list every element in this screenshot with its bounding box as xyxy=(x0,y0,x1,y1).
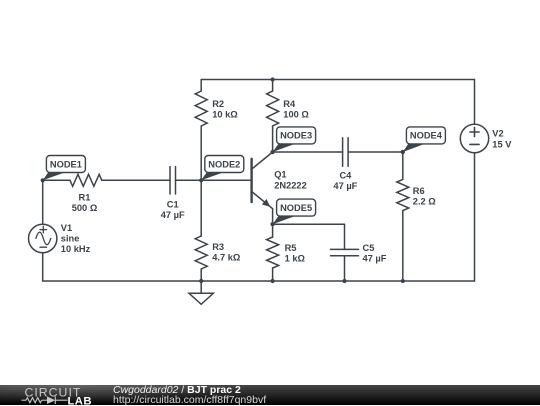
node NODE3 xyxy=(271,127,316,154)
node NODE2 xyxy=(199,156,244,183)
svg-text:47 µF: 47 µF xyxy=(161,210,185,220)
wire C4 to node4 xyxy=(348,151,403,153)
wire V2 column top xyxy=(474,80,476,125)
svg-text:1 kΩ: 1 kΩ xyxy=(285,254,306,264)
voltage source V2 xyxy=(460,124,488,152)
svg-text:NODE5: NODE5 xyxy=(280,203,312,213)
footer bar xyxy=(0,385,540,405)
node NODE4 xyxy=(401,127,446,154)
capacitor C4 xyxy=(343,138,349,167)
svg-text:V2: V2 xyxy=(492,129,503,139)
resistor R4 xyxy=(267,80,279,153)
wire collector to C4 xyxy=(273,151,343,153)
svg-text:Q1: Q1 xyxy=(274,170,286,180)
wire top rail xyxy=(201,79,474,81)
wire node1 to R1 xyxy=(43,179,70,181)
wire emitter node5 to C5 xyxy=(273,223,345,225)
svg-text:R3: R3 xyxy=(212,242,224,252)
svg-text:47 µF: 47 µF xyxy=(363,254,387,264)
wire C5 top lead xyxy=(344,224,346,249)
svg-text:R6: R6 xyxy=(413,186,425,196)
svg-text:C1: C1 xyxy=(167,200,179,210)
wire bottom rail xyxy=(43,280,475,282)
wire C1 to node2 xyxy=(176,179,202,181)
resistor R3 xyxy=(195,180,207,281)
svg-text:2N2222: 2N2222 xyxy=(274,180,307,190)
resistor R1 xyxy=(70,174,102,186)
svg-text:NODE2: NODE2 xyxy=(208,159,240,169)
svg-text:500 Ω: 500 Ω xyxy=(72,203,98,213)
resistor R2 xyxy=(195,80,207,181)
footer caption xyxy=(113,384,241,396)
svg-text:10 kHz: 10 kHz xyxy=(61,244,91,254)
svg-text:10 kΩ: 10 kΩ xyxy=(212,110,238,120)
svg-text:R1: R1 xyxy=(79,193,91,203)
capacitor C5 xyxy=(331,249,359,255)
resistor R6 xyxy=(397,152,409,281)
svg-text:NODE1: NODE1 xyxy=(50,159,82,169)
wire C5 bottom lead xyxy=(344,256,346,281)
wire left column below V1 xyxy=(42,253,44,281)
svg-text:C5: C5 xyxy=(363,243,375,253)
transistor Q1 xyxy=(252,152,273,224)
node NODE5 xyxy=(271,199,316,226)
svg-text:NODE3: NODE3 xyxy=(280,131,312,141)
svg-text:C4: C4 xyxy=(339,171,352,181)
wire node2 to Q1 base xyxy=(201,179,251,181)
svg-text:100 Ω: 100 Ω xyxy=(283,110,309,120)
junctions xyxy=(199,77,405,283)
svg-text:2.2 Ω: 2.2 Ω xyxy=(413,197,437,207)
svg-text:R4: R4 xyxy=(283,99,296,109)
svg-text:15 V: 15 V xyxy=(492,139,512,149)
svg-text:LAB: LAB xyxy=(68,395,92,406)
capacitor C1 xyxy=(170,167,176,194)
node NODE1 xyxy=(41,156,86,183)
ground xyxy=(189,281,213,304)
svg-text:NODE4: NODE4 xyxy=(410,131,443,141)
voltage source V1 xyxy=(29,224,57,252)
wire V2 column bottom xyxy=(474,153,476,281)
Q1 emitter arrow xyxy=(262,199,270,207)
wire left column above V1 xyxy=(42,180,44,224)
svg-text:V1: V1 xyxy=(61,223,72,233)
svg-text:4.7 kΩ: 4.7 kΩ xyxy=(212,253,241,263)
svg-text:R2: R2 xyxy=(212,99,224,109)
resistor R5 xyxy=(267,224,279,281)
svg-text:sine: sine xyxy=(61,234,80,244)
CircuitLab logo xyxy=(1,385,101,406)
svg-text:R5: R5 xyxy=(285,243,297,253)
wire R1 to C1 xyxy=(102,179,170,181)
svg-text:47 µF: 47 µF xyxy=(333,181,357,191)
